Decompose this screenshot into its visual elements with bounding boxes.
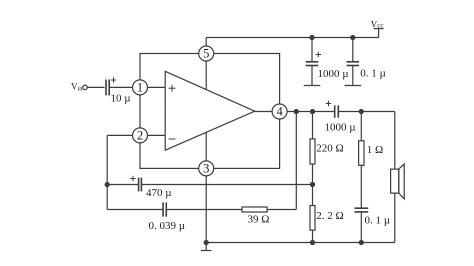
svg-text:0. 1 µ: 0. 1 µ [365, 215, 391, 227]
svg-text:2: 2 [137, 129, 143, 143]
ground bar under supply 1000µ [304, 85, 321, 87]
wire R 2.2 to ground rail [312, 230, 314, 242]
wire R 220 to divider junction [312, 164, 314, 206]
resistor 39Ω [242, 207, 267, 212]
wire feedback rail vertical [106, 135, 108, 209]
node junction supply / C 0.1µ top [351, 35, 355, 39]
node junction output / feedback riser [294, 109, 298, 113]
capacitor 1000µ output coupling [335, 105, 339, 117]
wire R 1 to C 0.1µ bottom [360, 165, 362, 208]
svg-text:220 Ω: 220 Ω [316, 142, 343, 154]
svg-text:1 Ω: 1 Ω [367, 144, 383, 156]
wire pin5 internal to triangle [205, 61, 207, 89]
polarity plus of 10µ [111, 77, 116, 82]
resistor 1Ω [359, 141, 364, 166]
svg-text:5: 5 [203, 47, 209, 61]
capacitor 10µ [106, 80, 109, 96]
wire pin5 up to supply rail [205, 38, 207, 47]
wire speaker bottom riser [394, 193, 396, 242]
svg-text:470 µ: 470 µ [146, 187, 172, 199]
node junction ground rail / R 2.2 [310, 240, 314, 244]
svg-text:3: 3 [203, 162, 209, 176]
resistor 220Ω [310, 139, 315, 164]
op-amp U1 triangle [165, 71, 255, 150]
wire resistor 39Ω to C 0.039µ [166, 209, 242, 211]
node junction ground rail / C 0.1µ [359, 240, 363, 244]
wire op-amp output to pin 4 [255, 111, 272, 113]
node junction output / R 220 top [310, 109, 314, 113]
capacitor 1000µ supply bypass [306, 62, 319, 66]
power Vcc symbol [374, 29, 384, 38]
wire feedback rail to pin 2 [107, 134, 132, 136]
wire supply rail down to C 1000µ [311, 38, 313, 62]
wire speaker top riser [394, 112, 396, 170]
polarity plus of output 1000µ [326, 101, 331, 106]
wire feedback rail to C 470µ [107, 184, 138, 186]
op-amp U1 package box [140, 54, 280, 169]
resistor 2.2Ω [310, 206, 315, 231]
svg-text:1000 µ: 1000 µ [318, 68, 349, 80]
svg-text:0. 039 µ: 0. 039 µ [149, 220, 186, 232]
op-amp minus input mark [169, 138, 176, 140]
node junction supply / C 1000µ top [310, 35, 314, 39]
svg-text:0. 1 µ: 0. 1 µ [360, 68, 386, 80]
polarity plus of 470µ [130, 176, 135, 181]
wire ground rail bottom [206, 242, 395, 244]
pin 1 circle [133, 80, 148, 95]
node junction divider mid R220/R2.2 [310, 182, 314, 186]
wire C 0.1µ to ground bar [352, 66, 354, 86]
ground bar under supply 0.1µ [345, 85, 362, 87]
node Vin input terminal [83, 85, 88, 90]
wire pin3 internal to triangle [205, 133, 207, 161]
wire pin1 to op-amp + input [148, 86, 166, 88]
wire 39Ω line riser to resistor [267, 209, 296, 211]
capacitor 0.1µ supply bypass [347, 62, 360, 66]
wire C 0.039µ to feedback rail [107, 209, 163, 211]
wire C 1000µ output to speaker top [338, 111, 395, 113]
wire C 470µ to divider junction [141, 184, 312, 186]
wire C 0.1µ zobel to ground rail [360, 212, 362, 243]
pin 2 circle [133, 128, 148, 143]
node junction feedback rail / C 470µ [105, 182, 109, 186]
svg-text:Vin: Vin [71, 82, 83, 93]
svg-text:4: 4 [276, 105, 283, 119]
svg-text:1000 µ: 1000 µ [325, 122, 356, 134]
svg-text:2. 2 Ω: 2. 2 Ω [316, 210, 343, 222]
capacitor 0.1µ zobel [354, 208, 368, 212]
wire C 10µ to pin 1 [109, 86, 132, 88]
polarity plus of supply 1000µ [316, 52, 321, 57]
wire output line to R 1 [360, 112, 362, 141]
speaker cone [399, 164, 404, 199]
svg-text:39 Ω: 39 Ω [248, 213, 270, 225]
node junction output line / R 1 top [359, 109, 363, 113]
speaker body rectangle [391, 169, 399, 193]
wire feedback riser from output down to 39Ω line [295, 112, 297, 210]
wire supply rail down to C 0.1µ [352, 38, 354, 62]
wire pin3 down to ground rail [205, 176, 207, 243]
op-amp plus input mark [169, 85, 176, 92]
wire output node 4 to C 1000µ output [287, 111, 335, 113]
capacitor 470µ [139, 178, 142, 192]
ground symbol [201, 243, 211, 251]
svg-text:Vcc: Vcc [371, 19, 384, 29]
wire pin2 to op-amp - input [148, 134, 166, 136]
pin 4 circle [272, 104, 287, 119]
capacitor 0.039µ [163, 202, 166, 216]
wire Vcc supply rail top [206, 37, 378, 39]
wire Vin terminal to C 10µ [87, 86, 104, 88]
pin 3 circle [199, 161, 214, 176]
node junction ground rail / pin3 [204, 240, 208, 244]
svg-text:10 µ: 10 µ [111, 93, 131, 105]
pin 5 circle [199, 46, 214, 61]
wire C 1000µ to ground bar [311, 66, 313, 86]
wire output node to R 220 [312, 112, 314, 139]
svg-text:1: 1 [137, 81, 143, 95]
